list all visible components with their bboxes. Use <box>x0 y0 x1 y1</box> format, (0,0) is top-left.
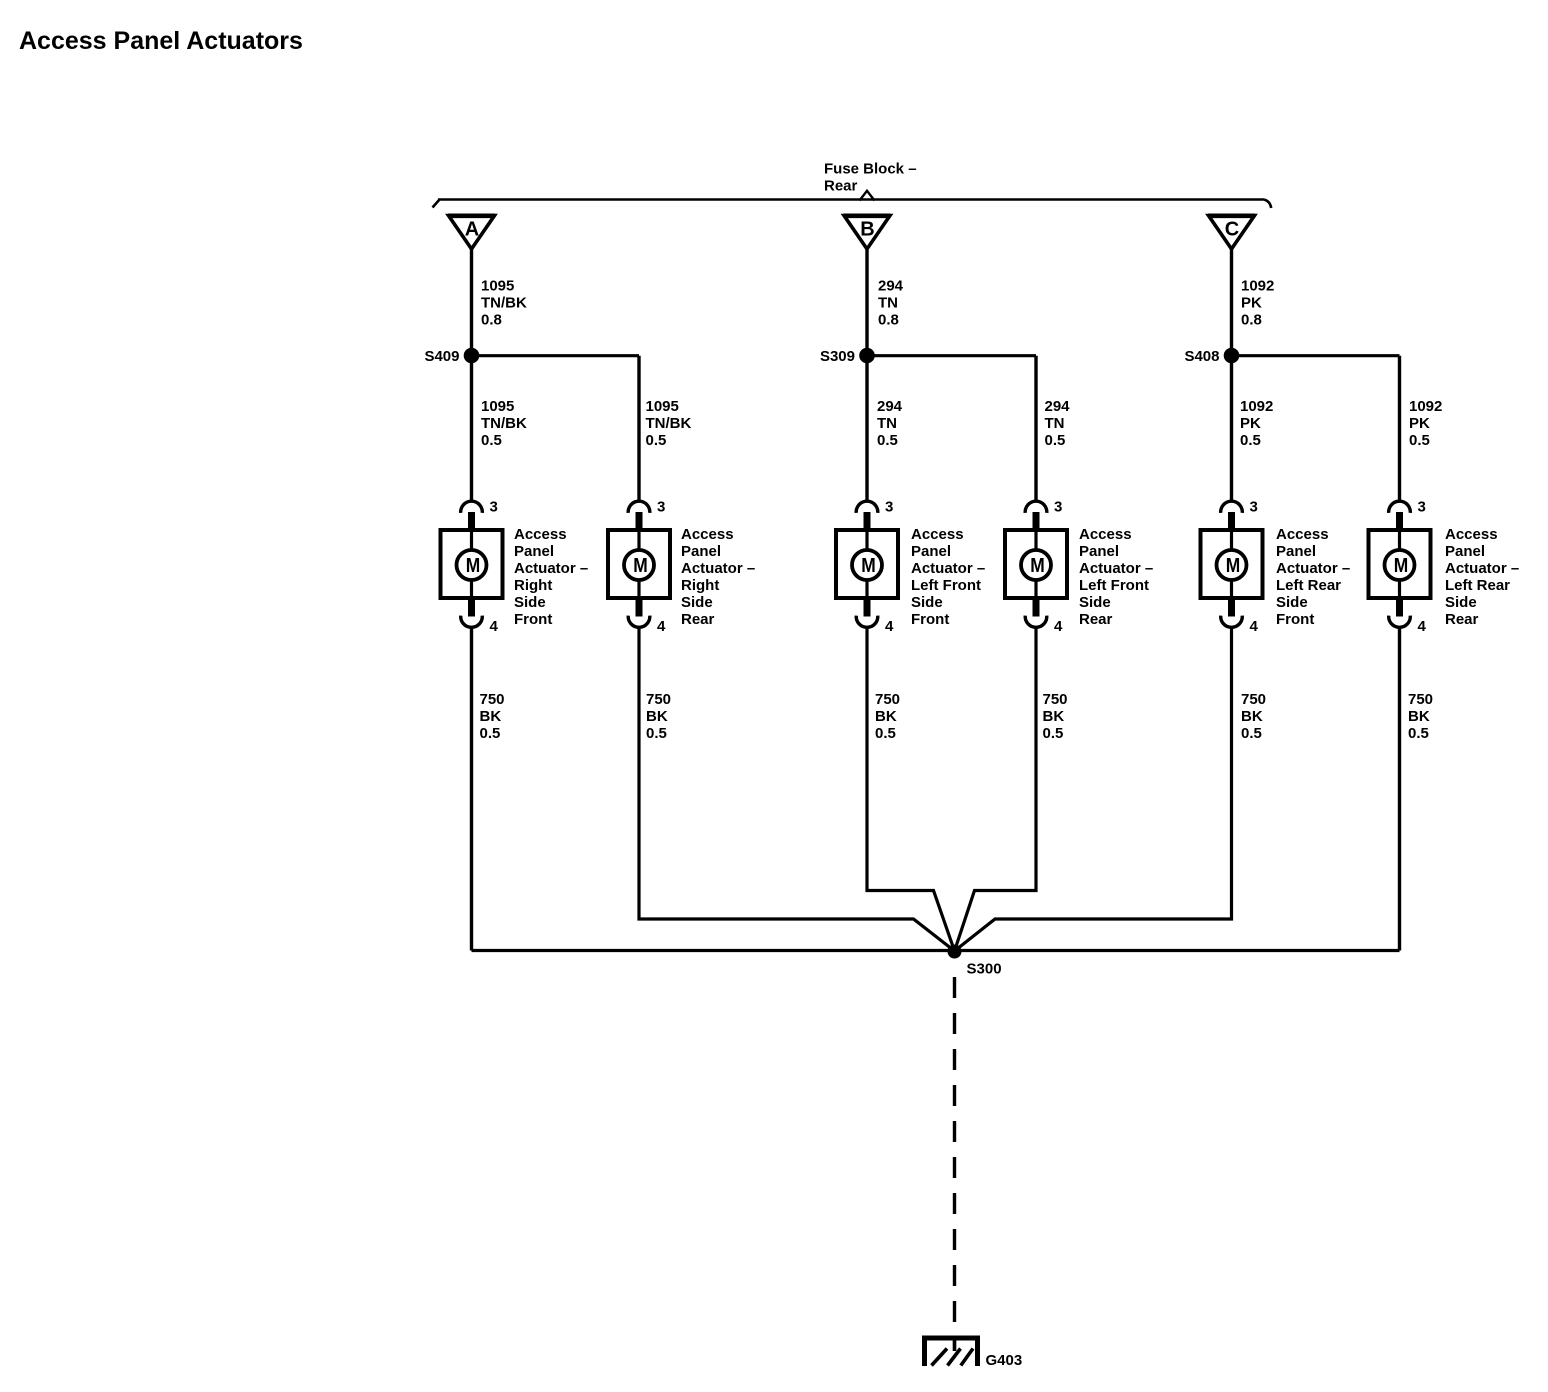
svg-text:PK: PK <box>1409 415 1430 432</box>
svg-text:Access: Access <box>681 526 734 543</box>
svg-text:TN: TN <box>878 295 898 312</box>
svg-text:3: 3 <box>1418 499 1426 516</box>
svg-text:0.5: 0.5 <box>1240 432 1261 449</box>
svg-text:B: B <box>860 219 874 241</box>
svg-text:Rear: Rear <box>681 611 715 628</box>
svg-text:0.5: 0.5 <box>1241 725 1262 742</box>
svg-text:Rear: Rear <box>1079 611 1113 628</box>
svg-text:Access: Access <box>911 526 964 543</box>
svg-text:BK: BK <box>646 708 668 725</box>
svg-text:4: 4 <box>1054 618 1063 635</box>
svg-text:1092: 1092 <box>1240 398 1273 415</box>
svg-text:Rear: Rear <box>824 178 858 195</box>
svg-text:1092: 1092 <box>1241 278 1274 295</box>
svg-text:TN: TN <box>1045 415 1065 432</box>
svg-text:4: 4 <box>885 618 894 635</box>
svg-text:Access: Access <box>1445 526 1498 543</box>
svg-text:Panel: Panel <box>514 543 554 560</box>
svg-text:Access: Access <box>514 526 567 543</box>
svg-text:M: M <box>1030 555 1045 577</box>
svg-text:0.5: 0.5 <box>1045 432 1066 449</box>
svg-text:750: 750 <box>1408 691 1433 708</box>
svg-text:750: 750 <box>1043 691 1068 708</box>
svg-text:Panel: Panel <box>911 543 951 560</box>
svg-text:4: 4 <box>657 618 666 635</box>
svg-text:Panel: Panel <box>1079 543 1119 560</box>
svg-text:3: 3 <box>885 499 893 516</box>
svg-text:M: M <box>633 555 648 577</box>
svg-text:Right: Right <box>681 577 719 594</box>
svg-text:Front: Front <box>1276 611 1314 628</box>
svg-text:Side: Side <box>911 594 943 611</box>
svg-text:1095: 1095 <box>481 398 514 415</box>
svg-text:Actuator –: Actuator – <box>681 560 755 577</box>
svg-text:0.5: 0.5 <box>1043 725 1064 742</box>
svg-text:C: C <box>1225 219 1239 241</box>
svg-text:0.5: 0.5 <box>1408 725 1429 742</box>
svg-text:Actuator –: Actuator – <box>911 560 985 577</box>
svg-text:0.5: 0.5 <box>1409 432 1430 449</box>
svg-text:PK: PK <box>1241 295 1262 312</box>
svg-text:4: 4 <box>1250 618 1259 635</box>
svg-text:4: 4 <box>490 618 499 635</box>
svg-text:Left Rear: Left Rear <box>1445 577 1510 594</box>
svg-text:Front: Front <box>514 611 552 628</box>
svg-text:Access: Access <box>1276 526 1329 543</box>
svg-text:BK: BK <box>1241 708 1263 725</box>
svg-text:3: 3 <box>490 499 498 516</box>
svg-text:Left Rear: Left Rear <box>1276 577 1341 594</box>
svg-text:Fuse Block –: Fuse Block – <box>824 161 917 178</box>
svg-text:4: 4 <box>1418 618 1427 635</box>
svg-text:750: 750 <box>480 691 505 708</box>
svg-text:BK: BK <box>1408 708 1430 725</box>
svg-text:294: 294 <box>877 398 903 415</box>
svg-text:Side: Side <box>681 594 713 611</box>
svg-text:0.5: 0.5 <box>646 432 667 449</box>
svg-text:Panel: Panel <box>681 543 721 560</box>
svg-text:0.8: 0.8 <box>878 312 899 329</box>
svg-text:1092: 1092 <box>1409 398 1442 415</box>
svg-text:0.5: 0.5 <box>480 725 501 742</box>
svg-text:BK: BK <box>1043 708 1065 725</box>
svg-text:TN: TN <box>877 415 897 432</box>
svg-text:750: 750 <box>646 691 671 708</box>
svg-text:0.5: 0.5 <box>877 432 898 449</box>
svg-text:S408: S408 <box>1184 348 1219 365</box>
svg-text:Side: Side <box>1079 594 1111 611</box>
svg-text:G403: G403 <box>986 1352 1023 1369</box>
svg-text:S309: S309 <box>820 348 855 365</box>
svg-text:S300: S300 <box>967 961 1002 978</box>
svg-text:BK: BK <box>875 708 897 725</box>
svg-text:Left Front: Left Front <box>1079 577 1149 594</box>
svg-text:Left Front: Left Front <box>911 577 981 594</box>
svg-text:Side: Side <box>1445 594 1477 611</box>
svg-text:750: 750 <box>1241 691 1266 708</box>
svg-text:Access Panel Actuators: Access Panel Actuators <box>19 27 303 55</box>
svg-text:294: 294 <box>1045 398 1071 415</box>
svg-text:3: 3 <box>1054 499 1062 516</box>
svg-text:TN/BK: TN/BK <box>481 295 527 312</box>
svg-text:M: M <box>861 555 876 577</box>
svg-text:0.5: 0.5 <box>646 725 667 742</box>
svg-text:Access: Access <box>1079 526 1132 543</box>
svg-text:BK: BK <box>480 708 502 725</box>
svg-text:3: 3 <box>1250 499 1258 516</box>
svg-text:A: A <box>465 219 479 241</box>
svg-text:M: M <box>466 555 481 577</box>
svg-text:750: 750 <box>875 691 900 708</box>
svg-text:Actuator –: Actuator – <box>1079 560 1153 577</box>
svg-text:1095: 1095 <box>646 398 679 415</box>
svg-text:0.5: 0.5 <box>875 725 896 742</box>
svg-text:0.8: 0.8 <box>1241 312 1262 329</box>
svg-text:Actuator –: Actuator – <box>514 560 588 577</box>
svg-text:TN/BK: TN/BK <box>481 415 527 432</box>
svg-text:TN/BK: TN/BK <box>646 415 692 432</box>
svg-text:Front: Front <box>911 611 949 628</box>
svg-text:M: M <box>1394 555 1409 577</box>
svg-text:3: 3 <box>657 499 665 516</box>
svg-text:M: M <box>1226 555 1241 577</box>
svg-text:S409: S409 <box>424 348 459 365</box>
svg-text:Panel: Panel <box>1445 543 1485 560</box>
svg-text:0.8: 0.8 <box>481 312 502 329</box>
svg-text:Panel: Panel <box>1276 543 1316 560</box>
svg-text:Rear: Rear <box>1445 611 1479 628</box>
svg-text:Side: Side <box>514 594 546 611</box>
svg-text:PK: PK <box>1240 415 1261 432</box>
svg-text:0.5: 0.5 <box>481 432 502 449</box>
svg-text:Right: Right <box>514 577 552 594</box>
svg-text:294: 294 <box>878 278 904 295</box>
svg-text:Actuator –: Actuator – <box>1276 560 1350 577</box>
svg-text:Side: Side <box>1276 594 1308 611</box>
svg-text:Actuator –: Actuator – <box>1445 560 1519 577</box>
svg-text:1095: 1095 <box>481 278 514 295</box>
